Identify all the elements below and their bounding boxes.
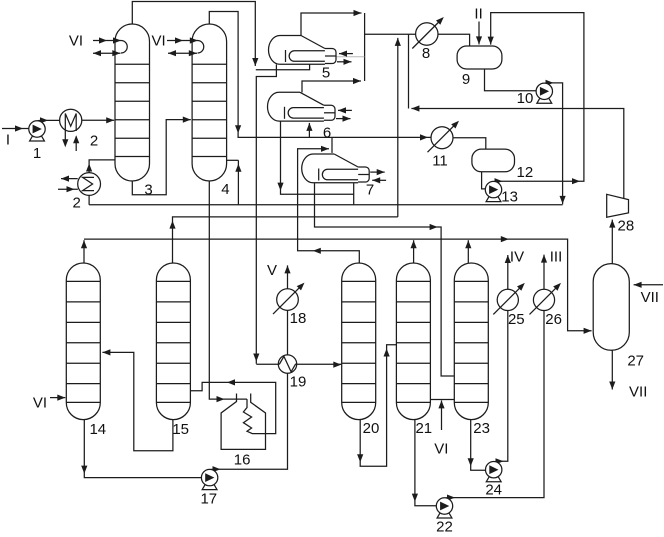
svg-text:13: 13 — [501, 189, 518, 206]
svg-text:VII: VII — [641, 289, 659, 306]
svg-text:27: 27 — [627, 353, 644, 370]
svg-text:16: 16 — [234, 452, 251, 469]
svg-text:18: 18 — [290, 310, 307, 327]
svg-text:23: 23 — [473, 420, 490, 437]
svg-text:1: 1 — [33, 145, 41, 162]
svg-text:21: 21 — [415, 420, 432, 437]
svg-text:20: 20 — [363, 420, 380, 437]
svg-text:III: III — [550, 249, 563, 266]
svg-text:VI: VI — [434, 440, 448, 457]
svg-text:26: 26 — [545, 311, 562, 328]
svg-text:9: 9 — [462, 71, 470, 88]
svg-text:24: 24 — [485, 482, 502, 499]
svg-text:17: 17 — [200, 491, 217, 508]
svg-text:2: 2 — [73, 195, 81, 212]
svg-text:I: I — [6, 132, 10, 149]
svg-text:5: 5 — [322, 65, 330, 82]
svg-text:25: 25 — [508, 311, 525, 328]
svg-text:VI: VI — [152, 33, 166, 50]
svg-text:VI: VI — [69, 33, 83, 50]
svg-text:14: 14 — [89, 421, 106, 438]
svg-text:15: 15 — [172, 421, 189, 438]
svg-text:V: V — [267, 262, 277, 279]
svg-text:2: 2 — [90, 133, 98, 150]
svg-text:19: 19 — [290, 374, 307, 391]
svg-text:11: 11 — [432, 153, 448, 170]
svg-text:22: 22 — [436, 519, 453, 536]
svg-text:VII: VII — [629, 384, 647, 401]
svg-text:10: 10 — [517, 90, 534, 107]
svg-text:VI: VI — [33, 395, 47, 412]
svg-text:12: 12 — [517, 164, 534, 181]
svg-text:II: II — [474, 6, 482, 23]
svg-text:28: 28 — [618, 218, 635, 235]
svg-text:6: 6 — [323, 125, 331, 142]
svg-text:7: 7 — [366, 182, 374, 199]
svg-text:4: 4 — [221, 181, 229, 198]
svg-text:8: 8 — [422, 45, 430, 62]
svg-text:IV: IV — [510, 249, 524, 266]
svg-text:3: 3 — [144, 182, 152, 199]
